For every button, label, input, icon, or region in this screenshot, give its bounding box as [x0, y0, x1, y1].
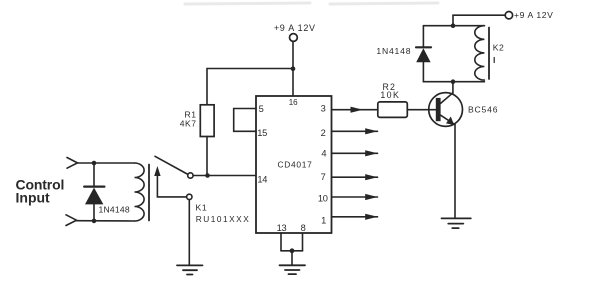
wire pin 10 output: [332, 196, 378, 198]
svg-text:10K: 10K: [380, 90, 400, 100]
relay K2 core bar: [488, 28, 490, 80]
wire supply right to K2: [453, 15, 505, 26]
junction dot pins 13-8: [290, 248, 295, 253]
wire pin 1 output: [332, 216, 378, 218]
wire emitter down: [454, 125, 456, 219]
svg-text:K2: K2: [493, 42, 505, 52]
K2 tick mark: [493, 58, 495, 63]
label Control Input: [16, 177, 65, 206]
wire lower contact to ground: [188, 200, 190, 266]
svg-text:K1: K1: [196, 203, 208, 213]
input terminal top: [67, 158, 78, 169]
svg-text:4K7: 4K7: [180, 118, 197, 128]
arrowhead pin 10: [365, 194, 377, 200]
arrowhead pin 3: [351, 107, 363, 113]
svg-text:1: 1: [321, 216, 326, 226]
transistor Q1 BC546: [429, 93, 463, 127]
ground G2: [280, 265, 306, 274]
wire K2 top rail: [423, 25, 484, 27]
svg-text:+9 A 12V: +9 A 12V: [514, 10, 553, 20]
svg-text:1N4148: 1N4148: [99, 204, 130, 214]
svg-text:8: 8: [301, 223, 306, 233]
svg-text:2: 2: [321, 128, 326, 138]
wire top-left input: [78, 162, 135, 164]
svg-text:RU101XXX: RU101XXX: [196, 214, 250, 224]
wire K2 bottom rail: [423, 81, 484, 83]
relay coil K2: [475, 26, 485, 80]
input terminal bottom: [66, 215, 77, 226]
diode D1 1N4148: [84, 163, 104, 221]
contact circle lower: [187, 194, 192, 199]
diode D2 1N4148: [416, 26, 431, 82]
ground G3: [442, 218, 471, 228]
svg-text:5: 5: [259, 104, 264, 114]
op IC U1 CD4017 body: [256, 96, 332, 233]
relay coil K1: [135, 163, 145, 221]
arrowhead pin 1: [365, 214, 377, 220]
wire pins 5-15 loop: [234, 109, 256, 132]
junction dot bottom-left: [92, 219, 97, 224]
wire supply to pin 16: [292, 41, 294, 96]
svg-text:+9 A 12V: +9 A 12V: [274, 23, 316, 33]
junction dot K2 top: [451, 23, 456, 28]
junction dot pin14/R1: [205, 173, 210, 178]
svg-text:1N4148: 1N4148: [376, 46, 411, 56]
relay K1 core bar: [148, 165, 150, 221]
wire R1 top rail: [207, 69, 293, 106]
wire pin 8 stub: [302, 233, 304, 251]
contact circle upper: [188, 173, 193, 178]
wire R1 bottom: [206, 137, 208, 176]
svg-text:15: 15: [257, 128, 267, 138]
actuator arrowhead: [154, 166, 160, 176]
junction dot rail/supply: [291, 66, 296, 71]
svg-text:3: 3: [321, 103, 326, 113]
arrowhead pin 2: [365, 128, 377, 134]
svg-text:13: 13: [277, 223, 287, 233]
arrowhead pin 4: [365, 150, 377, 156]
resistor R1: [200, 105, 214, 137]
wire pins 13-8 join: [281, 250, 303, 252]
supply terminal +9 A 12V (right): [505, 12, 512, 19]
svg-text:CD4017: CD4017: [278, 160, 313, 170]
wire R2 to base: [407, 109, 436, 111]
wire pin 3 output: [332, 109, 378, 111]
arrowhead pin 7: [365, 174, 377, 180]
svg-text:4: 4: [321, 149, 326, 159]
svg-text:14: 14: [257, 174, 267, 184]
wire contact to pin 14: [193, 175, 256, 177]
wire pin 4 output: [332, 152, 378, 154]
supply terminal +9 A 12V (left): [290, 34, 298, 42]
wire bottom-left input: [77, 220, 135, 222]
svg-text:10: 10: [318, 193, 328, 203]
wire to ground G2: [291, 251, 293, 265]
svg-text:7: 7: [321, 172, 326, 182]
wire pin 2 output: [332, 130, 378, 132]
relay contact blade K1: [155, 156, 188, 174]
wire collector up: [452, 82, 454, 93]
junction dot top-left: [92, 161, 97, 166]
actuator link wire: [157, 175, 186, 197]
resistor R2: [378, 102, 408, 118]
junction dot collector: [451, 79, 456, 84]
wire pin 7 output: [332, 176, 378, 178]
ground G1: [177, 265, 203, 274]
svg-text:BC546: BC546: [468, 104, 498, 114]
svg-text:16: 16: [289, 98, 298, 107]
svg-text:Input: Input: [16, 190, 51, 206]
wire pin 13 stub: [280, 233, 282, 251]
